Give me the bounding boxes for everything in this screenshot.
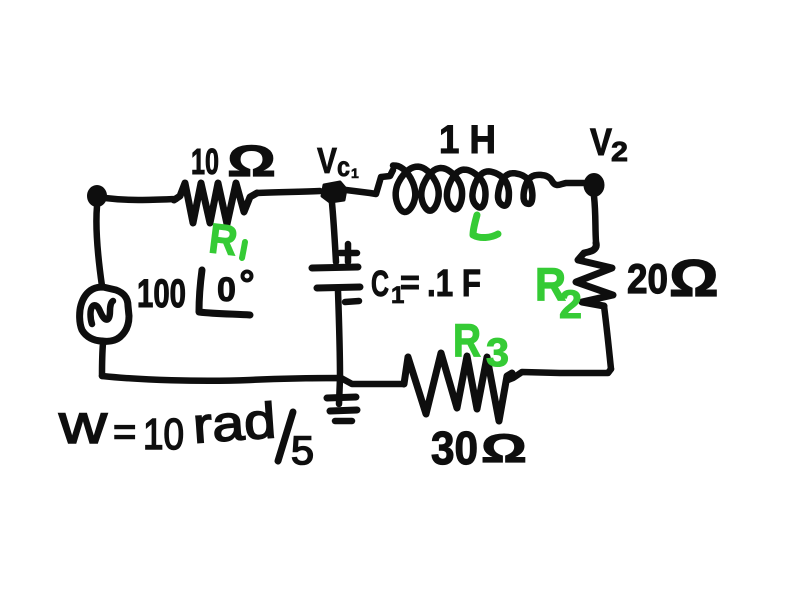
svg-text:1: 1 [351, 165, 359, 181]
svg-text:R: R [453, 314, 481, 366]
resistor R1 [174, 183, 257, 224]
degree mark [243, 272, 252, 281]
svg-text:Ω: Ω [227, 137, 276, 186]
svg-text:30: 30 [431, 422, 478, 474]
svg-text:=: = [400, 264, 420, 302]
ground bar 2 [330, 410, 357, 411]
source angle symbol [199, 270, 250, 315]
formula slash [278, 412, 293, 461]
svg-text:2: 2 [611, 136, 628, 167]
svg-text:1 H: 1 H [439, 118, 496, 162]
svg-text:10: 10 [143, 410, 184, 459]
wire source to bottom wire [102, 343, 103, 376]
inductor L (1 H coil) [393, 166, 551, 213]
svg-text:20: 20 [627, 255, 668, 302]
wire node A to R1 [105, 198, 176, 200]
svg-text:=: = [113, 410, 136, 454]
wire node Vc1 to inductor [346, 170, 393, 194]
capacitor C1 top plate [312, 267, 358, 268]
svg-text:3: 3 [486, 331, 509, 375]
wire bottom-right corner to R3 [508, 369, 611, 380]
svg-text:5: 5 [291, 429, 314, 473]
svg-text:R: R [207, 214, 241, 264]
node A (top-left junction dot) [88, 186, 106, 206]
ground bar 3 [335, 418, 352, 425]
wire bottom (source to ground junction to R3) [102, 376, 404, 384]
svg-text:100: 100 [137, 272, 186, 316]
node V2 (junction dot) [585, 174, 604, 196]
svg-text:c: c [337, 151, 350, 182]
svg-text:.1 F: .1 F [427, 263, 481, 305]
label L (green) [473, 215, 498, 238]
wire R1 to node Vc1 [257, 191, 320, 193]
label R1 (green) [207, 214, 241, 264]
svg-text:V: V [590, 122, 613, 164]
svg-text:C: C [371, 263, 389, 304]
svg-text:w: w [58, 392, 108, 455]
wire R2 down to bottom-right corner [604, 306, 611, 369]
svg-text:2: 2 [559, 283, 582, 327]
svg-text:Ω: Ω [481, 427, 527, 471]
capacitor C1 minus sign [345, 301, 359, 302]
svg-text:Ω: Ω [669, 250, 719, 308]
capacitor C1 bottom lead [338, 291, 340, 377]
capacitor C1 bottom plate [317, 287, 360, 288]
node Vc1 (junction dot) [322, 182, 346, 202]
wire node A down to source [96, 206, 102, 286]
svg-text:0: 0 [217, 271, 236, 309]
ground stem [339, 378, 340, 404]
svg-text:rad: rad [191, 392, 278, 454]
AC source sine squiggle [91, 301, 114, 324]
ground bar 1 [327, 397, 356, 398]
capacitor C1 top lead [332, 203, 336, 262]
resistor R2 [576, 243, 613, 306]
svg-text:10: 10 [191, 141, 219, 182]
capacitor C1 plus sign [340, 244, 357, 262]
resistor R3 [404, 353, 512, 421]
wire inductor to node V2 [552, 181, 584, 185]
wire V2 down to R2 [594, 196, 596, 242]
svg-text:V: V [317, 140, 337, 181]
AC source V1 (circle) [80, 287, 129, 341]
